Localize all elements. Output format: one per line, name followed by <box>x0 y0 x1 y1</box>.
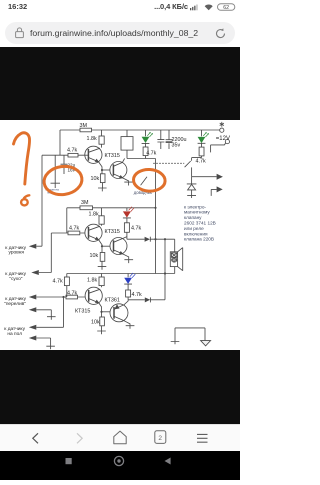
svg-text:3М: 3М <box>80 123 88 129</box>
svg-text:на пол: на пол <box>7 332 22 337</box>
svg-text:клапану: клапану <box>184 215 202 220</box>
svg-text:62: 62 <box>223 5 229 11</box>
svg-text:КТ315: КТ315 <box>75 309 90 315</box>
svg-text:1.8k: 1.8k <box>89 212 99 218</box>
svg-text:1.8k: 1.8k <box>87 136 97 142</box>
svg-text:или реле: или реле <box>184 226 204 231</box>
svg-text:"перелив": "перелив" <box>4 301 26 307</box>
svg-text:2: 2 <box>158 435 162 442</box>
svg-text:4.7k: 4.7k <box>69 226 79 232</box>
svg-text:КТ315: КТ315 <box>105 229 120 235</box>
svg-text:10k: 10k <box>91 176 100 182</box>
svg-text:4.7k: 4.7k <box>131 226 141 232</box>
svg-text:10k: 10k <box>91 320 100 326</box>
svg-text:уровня: уровня <box>9 251 25 256</box>
svg-text:к электро-: к электро- <box>184 204 206 209</box>
svg-text:10k: 10k <box>90 253 99 259</box>
svg-text:=12V: =12V <box>216 136 230 142</box>
svg-text:магнитному: магнитному <box>184 210 210 215</box>
svg-text:КТ315: КТ315 <box>105 153 120 159</box>
svg-text:2602 3741 12В: 2602 3741 12В <box>184 221 216 226</box>
svg-text:4.7k: 4.7k <box>196 159 206 165</box>
svg-text:4.7k: 4.7k <box>67 148 77 154</box>
svg-text:4.7k: 4.7k <box>53 279 63 285</box>
svg-text:включения: включения <box>184 231 208 236</box>
svg-text:"сухо": "сухо" <box>9 276 23 282</box>
svg-text:1.8k: 1.8k <box>87 278 97 284</box>
svg-text:4.7k: 4.7k <box>67 291 77 297</box>
svg-text:клапана 220В: клапана 220В <box>184 237 214 242</box>
svg-text:КТ361: КТ361 <box>105 298 120 304</box>
svg-text:3М: 3М <box>81 200 89 206</box>
svg-text:4.7k: 4.7k <box>146 151 156 157</box>
svg-text:35v: 35v <box>172 143 181 149</box>
svg-text:4.7k: 4.7k <box>132 292 142 298</box>
